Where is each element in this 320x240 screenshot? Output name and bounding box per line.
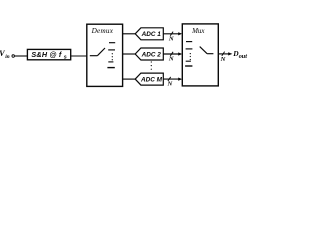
mux switch output stub	[207, 53, 213, 55]
svg-text:N: N	[220, 56, 226, 63]
svg-text:N: N	[167, 80, 173, 87]
bus slash ADC 2	[170, 52, 173, 56]
svg-text:in: in	[5, 54, 10, 60]
demux contact M	[107, 67, 114, 69]
node Vin input terminal circle	[12, 55, 15, 58]
mux contact M	[185, 65, 192, 67]
wire S&H to Demux	[71, 55, 87, 57]
demux contact 2	[108, 49, 115, 51]
block Mux	[182, 24, 218, 86]
wire ADC M to Mux	[163, 78, 180, 80]
svg-text:Demux: Demux	[91, 27, 114, 35]
wire Demux to ADC 1	[123, 33, 136, 35]
svg-text:ADC 1: ADC 1	[141, 31, 162, 38]
mux ellipsis dots	[190, 53, 191, 60]
arrowhead output	[228, 52, 232, 55]
wire Demux to ADC M	[123, 78, 136, 80]
demux switch arm	[97, 48, 105, 56]
svg-text:s: s	[64, 55, 67, 61]
wire ADC 2 to Mux	[163, 53, 180, 55]
block ADC M	[135, 73, 163, 85]
block S&H sample-and-hold	[27, 49, 70, 59]
demux contact 1	[109, 42, 115, 44]
wire ADC 1 to Mux	[163, 33, 180, 35]
node Dout label	[232, 49, 247, 60]
block ADC 1	[135, 28, 163, 40]
block Demux	[87, 24, 123, 86]
ellipsis between ADC 2 and ADC M	[151, 61, 152, 69]
bus slash output	[222, 52, 225, 56]
bus slash ADC M	[168, 77, 171, 81]
demux contact 3	[108, 61, 113, 63]
block ADC 2	[135, 48, 163, 60]
node Vin label	[0, 49, 10, 60]
wire Mux to Dout	[218, 53, 229, 55]
wire Demux to ADC 2	[123, 53, 136, 55]
arrowhead into Mux row M	[178, 78, 182, 81]
svg-text:N: N	[168, 35, 174, 42]
demux ellipsis dots	[112, 53, 113, 60]
bus slash ADC 1	[170, 32, 173, 36]
wire Vin to S&H	[15, 55, 28, 57]
mux switch arm	[200, 47, 207, 54]
svg-text:N: N	[168, 56, 174, 63]
demux switch input stub	[90, 55, 98, 57]
arrowhead into Mux row 2	[178, 52, 182, 55]
mux contact 1	[186, 41, 192, 43]
mux contact 2	[186, 48, 193, 50]
svg-text:S&H @ f: S&H @ f	[31, 50, 61, 59]
svg-text:ADC M: ADC M	[140, 77, 163, 84]
mux contact 3	[186, 60, 191, 62]
arrowhead into Mux row 1	[178, 32, 182, 35]
svg-text:out: out	[239, 53, 248, 60]
svg-text:Mux: Mux	[191, 27, 205, 35]
svg-text:ADC 2: ADC 2	[141, 51, 162, 58]
label S&H @ fs	[31, 50, 66, 61]
